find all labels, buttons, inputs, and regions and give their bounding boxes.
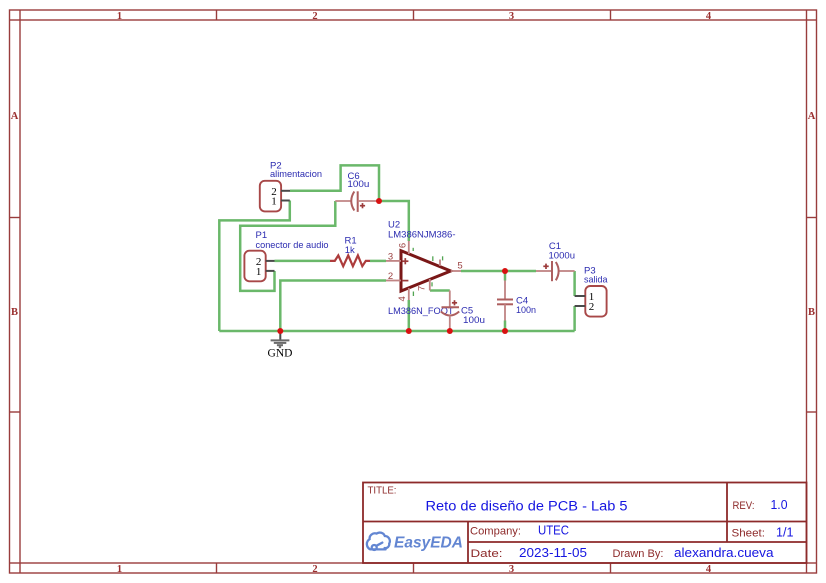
svg-text:1: 1 — [256, 266, 262, 278]
svg-text:5: 5 — [457, 261, 462, 272]
svg-text:alimentacion: alimentacion — [270, 169, 322, 180]
svg-text:2: 2 — [589, 301, 595, 313]
svg-text:2023-11-05: 2023-11-05 — [519, 546, 587, 560]
svg-text:4: 4 — [706, 11, 712, 22]
svg-text:B: B — [11, 307, 18, 318]
svg-text:1: 1 — [271, 196, 277, 208]
svg-text:100u: 100u — [347, 179, 369, 190]
svg-text:B: B — [808, 307, 815, 318]
svg-text:UTEC: UTEC — [538, 524, 569, 538]
svg-text:4: 4 — [397, 296, 408, 301]
svg-text:1/1: 1/1 — [776, 526, 794, 540]
svg-text:6: 6 — [398, 243, 409, 248]
svg-text:2: 2 — [312, 564, 317, 575]
svg-text:100u: 100u — [463, 315, 485, 326]
svg-text:1000u: 1000u — [549, 251, 576, 262]
svg-text:1: 1 — [117, 564, 122, 575]
svg-text:2: 2 — [312, 11, 317, 22]
svg-text:A: A — [808, 111, 816, 122]
svg-text:TITLE:: TITLE: — [368, 486, 397, 497]
svg-text:Company:: Company: — [470, 526, 521, 538]
svg-text:3: 3 — [509, 564, 514, 575]
svg-text:Drawn By:: Drawn By: — [613, 548, 664, 560]
svg-text:4: 4 — [706, 564, 712, 575]
svg-text:conector de audio: conector de audio — [256, 240, 329, 251]
svg-text:GND: GND — [268, 348, 293, 360]
svg-text:salida: salida — [584, 274, 608, 285]
svg-text:A: A — [11, 111, 19, 122]
svg-text:1k: 1k — [345, 245, 355, 256]
svg-text:LM386NJM386-: LM386NJM386- — [388, 229, 456, 240]
svg-text:100n: 100n — [516, 305, 536, 316]
svg-text:alexandra.cueva: alexandra.cueva — [674, 546, 774, 560]
svg-text:2: 2 — [388, 271, 393, 282]
svg-text:1: 1 — [117, 11, 122, 22]
svg-text:3: 3 — [388, 252, 393, 263]
svg-text:3: 3 — [509, 11, 514, 22]
svg-text:1.0: 1.0 — [771, 498, 788, 512]
svg-text:REV:: REV: — [733, 500, 755, 512]
svg-text:7: 7 — [416, 286, 427, 291]
svg-text:Sheet:: Sheet: — [732, 528, 766, 540]
svg-text:Reto de diseño de PCB - Lab 5: Reto de diseño de PCB - Lab 5 — [426, 498, 628, 514]
svg-text:Date:: Date: — [471, 548, 503, 560]
svg-text:EasyEDA: EasyEDA — [394, 535, 463, 552]
